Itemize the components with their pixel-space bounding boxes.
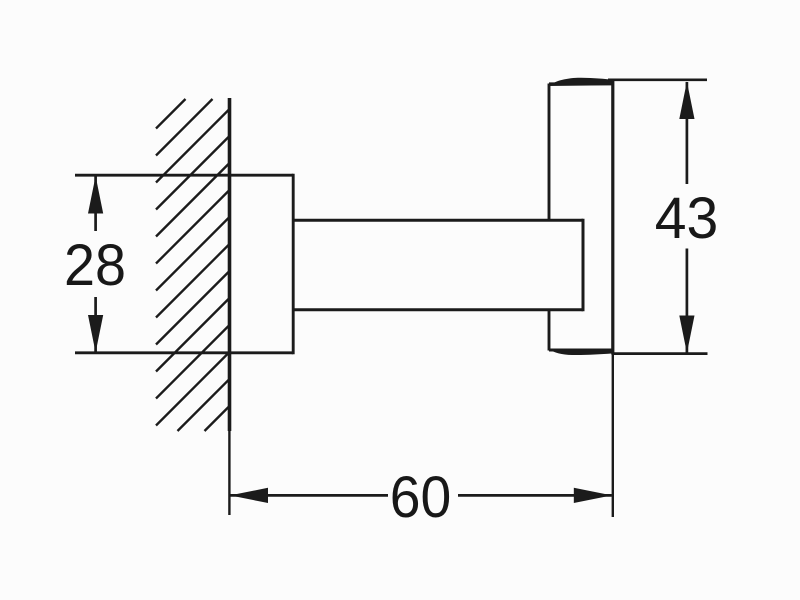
wall hatching (156, 99, 230, 431)
28 dimension line lower segment (94, 297, 97, 353)
knob inner top edge (549, 82, 613, 85)
60 dimension line left segment (230, 494, 388, 497)
knob right edge (611, 81, 614, 355)
mounting plate top edge + 28 top extension line (75, 174, 293, 177)
mounting plate right edge (292, 174, 295, 354)
knob left edge lower part (548, 310, 551, 351)
arm end face edge (582, 219, 585, 312)
43 down arrowhead (679, 316, 694, 354)
43 bottom extension line (613, 352, 708, 355)
60 dimension line right segment (458, 494, 612, 497)
28 dimension line upper segment (94, 176, 97, 231)
svg-text:60: 60 (390, 465, 452, 530)
28 down arrowhead (88, 315, 103, 353)
43 dimension line lower segment (686, 249, 689, 354)
arm top edge (293, 219, 583, 222)
60 left extension line (228, 431, 230, 515)
knob left edge upper part (548, 84, 551, 221)
mounting plate bottom edge + 28 bottom extension line (75, 351, 293, 354)
43 top extension line (608, 79, 707, 82)
43 dimension line upper segment (686, 82, 689, 184)
knob top cap curve (549, 78, 613, 86)
svg-text:28: 28 (64, 233, 126, 298)
60 right arrowhead (574, 488, 612, 503)
wall face line (228, 98, 232, 431)
60 left arrowhead (230, 488, 268, 503)
svg-text:43: 43 (655, 186, 719, 251)
28 up arrowhead (88, 176, 103, 214)
60 right extension line (612, 355, 614, 518)
43 up arrowhead (679, 82, 694, 120)
knob bottom cap curve (549, 349, 613, 355)
knob inner bottom edge (549, 349, 613, 352)
arm bottom edge (293, 308, 583, 311)
